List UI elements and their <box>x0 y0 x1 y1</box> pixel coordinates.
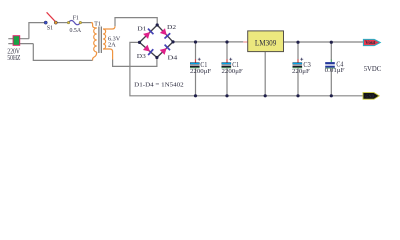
svg-text:GND: GND <box>365 94 374 99</box>
svg-text:D3: D3 <box>137 53 146 60</box>
svg-text:0.01μF: 0.01μF <box>325 67 345 74</box>
svg-text:F1: F1 <box>73 15 79 22</box>
svg-text:D4: D4 <box>168 55 179 62</box>
svg-text:T1: T1 <box>94 20 101 27</box>
svg-text:2200μF: 2200μF <box>222 68 243 75</box>
svg-text:D1-D4 = 1N5402: D1-D4 = 1N5402 <box>134 82 184 89</box>
svg-text:50HZ: 50HZ <box>7 55 20 62</box>
svg-text:S1: S1 <box>47 25 53 32</box>
svg-text:D1: D1 <box>137 25 146 32</box>
svg-text:220μF: 220μF <box>292 68 310 75</box>
svg-text:Vout: Vout <box>365 41 376 46</box>
svg-text:5VDC: 5VDC <box>364 65 382 73</box>
svg-text:0.5A: 0.5A <box>70 27 82 34</box>
svg-text:2200μF: 2200μF <box>190 68 211 75</box>
svg-text:2A: 2A <box>108 41 116 48</box>
svg-text:D2: D2 <box>167 24 176 31</box>
svg-text:LM309: LM309 <box>255 38 277 47</box>
